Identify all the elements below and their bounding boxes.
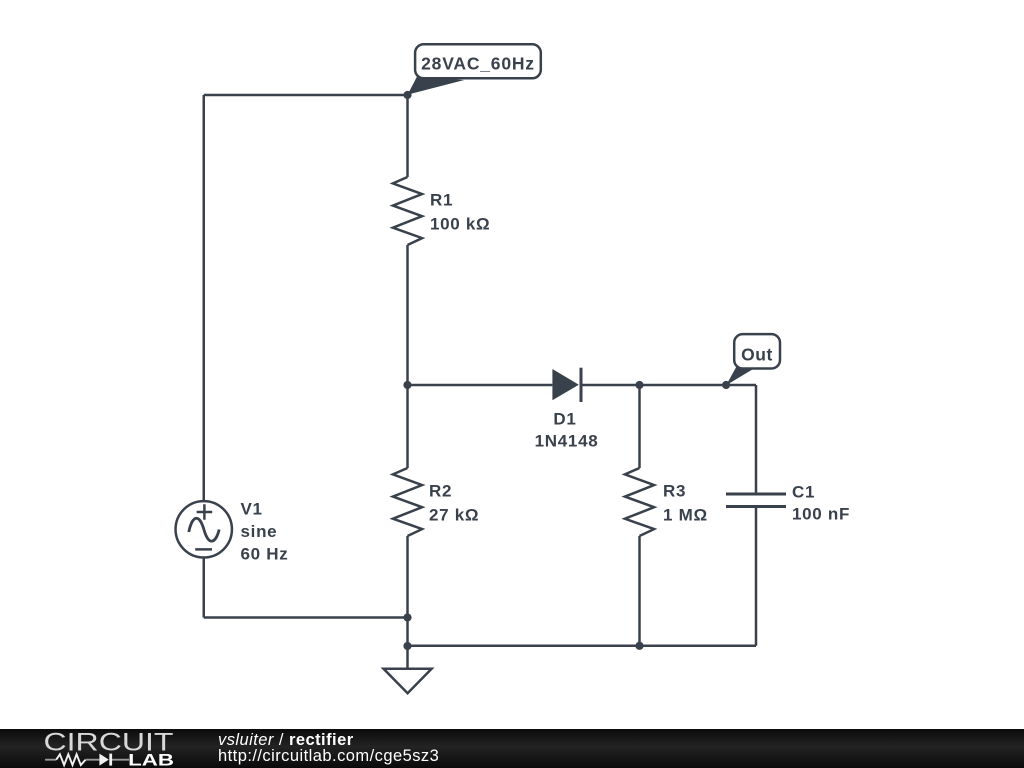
label C1 value	[792, 483, 850, 524]
node V1 bottom junction	[403, 613, 411, 621]
svg-text:V1: V1	[241, 500, 263, 519]
wire R3 bottom lead	[638, 536, 641, 646]
footer credit text	[218, 732, 439, 764]
svg-text:60 Hz: 60 Hz	[241, 545, 289, 564]
net flag Out	[726, 334, 780, 385]
wire ground stub	[406, 646, 409, 669]
node ground junction	[403, 642, 411, 650]
svg-text:28VAC_60Hz: 28VAC_60Hz	[421, 53, 535, 73]
svg-text:1N4148: 1N4148	[535, 432, 599, 451]
wire bottom rail	[408, 645, 757, 648]
svg-text:1 MΩ: 1 MΩ	[663, 505, 708, 524]
svg-text:sine: sine	[241, 522, 278, 541]
node Out junction	[722, 381, 730, 389]
wire bottom left	[204, 616, 408, 619]
footer bar	[0, 729, 1024, 768]
label D1 value	[535, 410, 599, 451]
node R3 top junction	[635, 381, 643, 389]
label R2 value	[429, 481, 479, 524]
CircuitLab logo	[0, 729, 200, 768]
svg-text:27 kΩ: 27 kΩ	[429, 505, 479, 524]
resistor R3	[625, 468, 654, 536]
label V1 value	[241, 500, 289, 564]
voltage source V1	[176, 501, 232, 557]
ground	[384, 669, 432, 693]
label R1 value	[430, 190, 490, 233]
svg-text:100 nF: 100 nF	[792, 505, 850, 524]
wire R1 to node	[406, 245, 409, 385]
resistor R1	[393, 177, 422, 245]
wire node to R2	[406, 385, 409, 468]
node mid-left junction	[403, 381, 411, 389]
wire C1 top lead	[755, 385, 758, 494]
node R3 bottom junction	[635, 642, 643, 650]
capacitor C1	[726, 494, 786, 507]
resistor R2	[393, 468, 422, 536]
svg-text:LAB: LAB	[128, 751, 174, 768]
svg-text:D1: D1	[553, 410, 576, 429]
diode D1	[552, 368, 581, 402]
wire R3 top lead	[638, 385, 641, 468]
wire left rail	[203, 95, 206, 501]
wire C1 bottom lead	[755, 507, 758, 646]
svg-text:R1: R1	[430, 190, 453, 209]
svg-text:R3: R3	[663, 481, 686, 500]
label R3 value	[663, 481, 708, 524]
svg-text:Out: Out	[741, 345, 773, 365]
wire R1 top lead	[406, 95, 409, 177]
wire top rail	[204, 94, 408, 97]
wire diode to out	[581, 384, 756, 387]
svg-text:R2: R2	[429, 481, 452, 500]
wire R2 bottom lead	[406, 536, 409, 646]
node 28VAC_60Hz junction	[403, 91, 411, 99]
wire middle rail to diode	[408, 384, 553, 387]
net flag 28VAC_60Hz	[408, 44, 541, 94]
svg-text:C1: C1	[792, 483, 815, 502]
svg-text:100 kΩ: 100 kΩ	[430, 214, 490, 233]
wire V1 bottom lead	[203, 558, 206, 618]
